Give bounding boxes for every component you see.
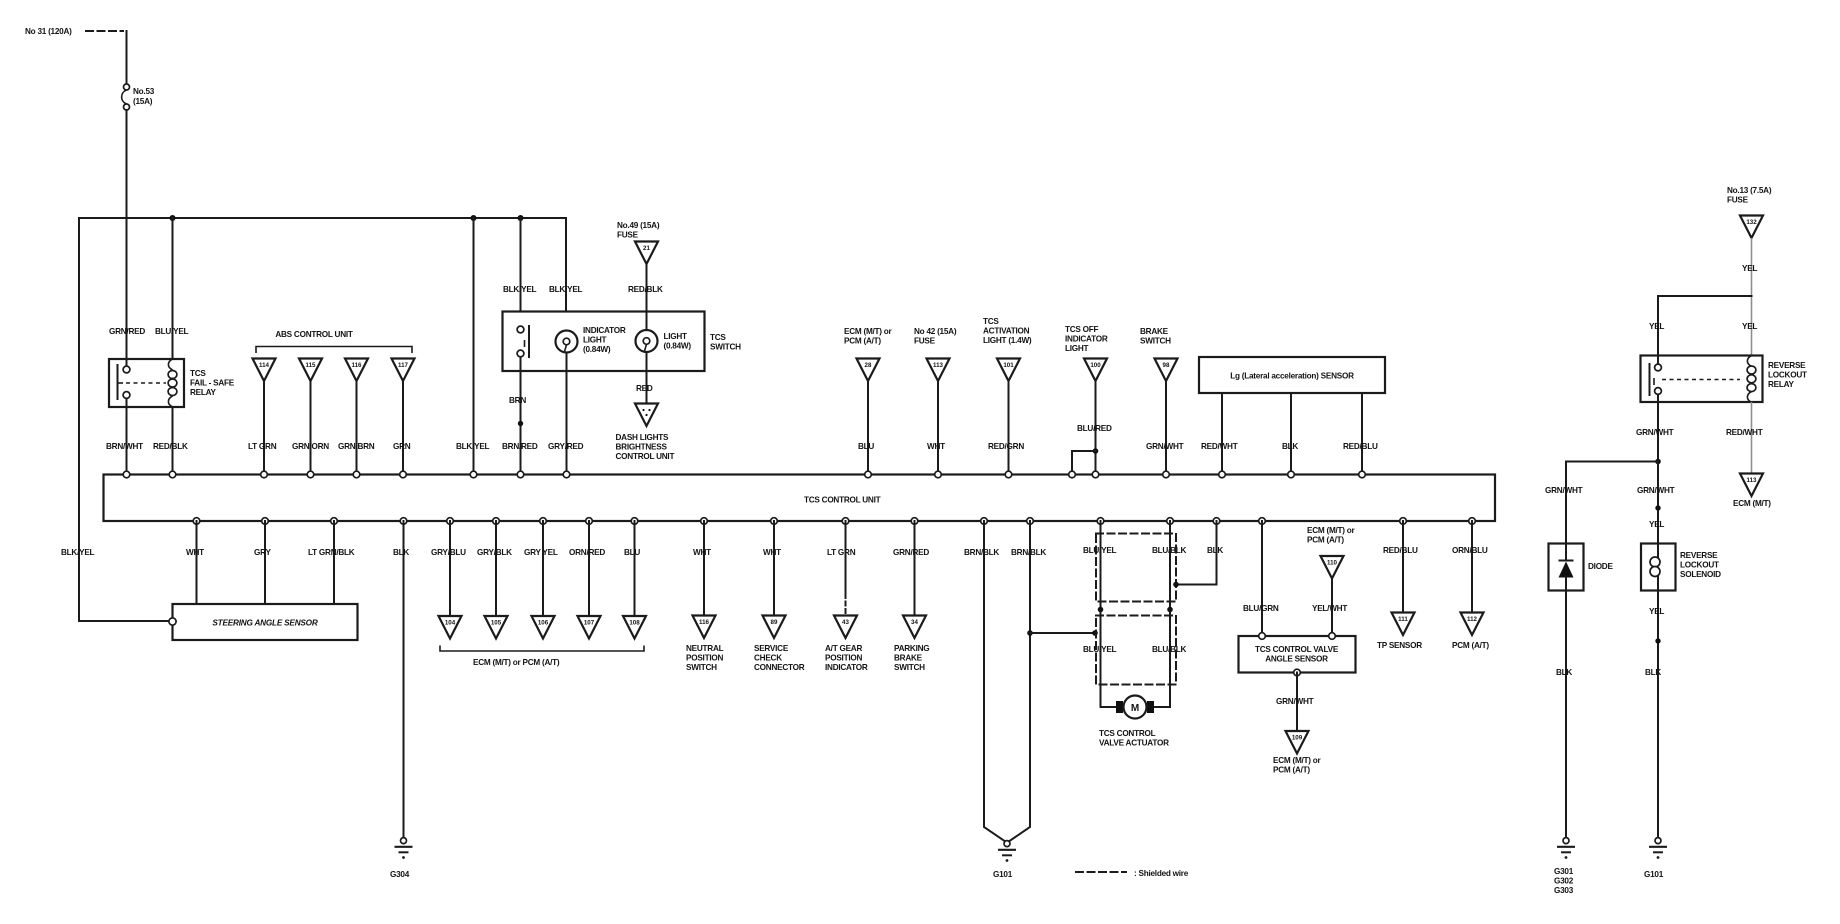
svg-text:GRN/RED: GRN/RED: [893, 548, 929, 557]
svg-text:CHECK: CHECK: [754, 654, 782, 663]
connector dash lights brightness control unit: [616, 404, 675, 462]
svg-text:ECM (M/T): ECM (M/T): [1733, 499, 1771, 508]
wire GRN/WHT branch to diode: [1545, 462, 1658, 544]
wire GRN/WHT angle sensor to ECM: [1276, 673, 1314, 732]
wire shielded lower section: [1096, 616, 1176, 685]
svg-text:BLU/YEL: BLU/YEL: [1083, 546, 1117, 555]
node No.31 (120A) power feed label: [25, 27, 123, 36]
svg-text:TCS CONTROL VALVE: TCS CONTROL VALVE: [1255, 645, 1339, 654]
svg-text:BLK: BLK: [1282, 442, 1298, 451]
svg-text:CONNECTOR: CONNECTOR: [754, 663, 805, 672]
svg-text:RED: RED: [636, 384, 653, 393]
svg-text:GRN/WHT: GRN/WHT: [1637, 486, 1675, 495]
wire GRN/BRN: [338, 381, 375, 475]
svg-text:LIGHT: LIGHT: [664, 332, 688, 341]
wire GRY/BLK: [477, 521, 512, 616]
svg-text:STEERING ANGLE SENSOR: STEERING ANGLE SENSOR: [212, 619, 317, 628]
svg-text:98: 98: [1163, 362, 1170, 369]
wire BLU/GRN to angle sensor: [1243, 521, 1279, 636]
svg-text:BLK/YEL: BLK/YEL: [456, 442, 490, 451]
wire top bus: [79, 217, 566, 219]
svg-text:BLU/BLK: BLU/BLK: [1152, 645, 1187, 654]
switch S1 TCS switch box: [503, 312, 742, 372]
svg-text:RED/WHT: RED/WHT: [1201, 442, 1238, 451]
wire WHT: [927, 381, 945, 475]
svg-text:GRN: GRN: [393, 442, 411, 451]
ground G301 G302 G303: [1554, 838, 1575, 895]
svg-text:PCM (A/T): PCM (A/T): [1452, 641, 1489, 650]
lamp TCS switch light 0.84W: [636, 330, 692, 352]
svg-text:104: 104: [445, 620, 456, 627]
connector 110 ECM: [1307, 526, 1356, 579]
connector 113 ECM M/T: [1733, 474, 1771, 509]
svg-text:RELAY: RELAY: [1768, 380, 1795, 389]
svg-text:RED/BLK: RED/BLK: [628, 285, 663, 294]
svg-text:No.53: No.53: [133, 87, 155, 96]
svg-text:BRN/WHT: BRN/WHT: [106, 442, 143, 451]
svg-text:110: 110: [1327, 560, 1338, 567]
svg-text:TCS CONTROL UNIT: TCS CONTROL UNIT: [804, 496, 881, 505]
svg-text:FAIL - SAFE: FAIL - SAFE: [190, 379, 235, 388]
wire BLK to ground G304: [393, 521, 409, 838]
svg-text:BLU/BLK: BLU/BLK: [1152, 546, 1187, 555]
svg-text:BLU: BLU: [624, 548, 640, 557]
wire BLK diode to ground: [1556, 591, 1572, 839]
lamp indicator light 0.84W: [556, 326, 626, 354]
connector 28 ECM: [844, 327, 893, 381]
wire WHT to service check connector: [763, 521, 781, 616]
wire GRY/RED indicator light to control unit: [548, 353, 584, 475]
svg-text:SWITCH: SWITCH: [710, 343, 741, 352]
svg-text:FUSE: FUSE: [1727, 196, 1749, 205]
node pins bottom edge of TCS control unit: [193, 518, 1475, 525]
connector 115: [299, 359, 322, 382]
svg-text:SWITCH: SWITCH: [686, 663, 717, 672]
svg-text:ECM (M/T) or: ECM (M/T) or: [1273, 756, 1322, 765]
svg-text:GRN/WHT: GRN/WHT: [1146, 442, 1184, 451]
connector 116 neutral position switch: [686, 616, 724, 673]
svg-text:YEL: YEL: [1742, 322, 1757, 331]
wire YEL/WHT to angle sensor: [1312, 579, 1347, 637]
svg-text:GRN/WHT: GRN/WHT: [1545, 486, 1583, 495]
svg-text:BLU/GRN: BLU/GRN: [1243, 604, 1279, 613]
svg-text:PCM (A/T): PCM (A/T): [1307, 536, 1344, 545]
svg-text:WHT: WHT: [763, 548, 781, 557]
node legend shielded wire: [1076, 869, 1189, 878]
svg-text:POSITION: POSITION: [686, 654, 723, 663]
svg-text:TP SENSOR: TP SENSOR: [1377, 641, 1422, 650]
svg-text:No 42 (15A): No 42 (15A): [914, 327, 957, 336]
svg-text:REVERSE: REVERSE: [1680, 551, 1718, 560]
ground G101: [993, 841, 1016, 879]
svg-text:SWITCH: SWITCH: [894, 663, 925, 672]
svg-text:132: 132: [1746, 219, 1757, 226]
svg-text:34: 34: [911, 619, 918, 626]
svg-text:LOCKOUT: LOCKOUT: [1680, 561, 1719, 570]
svg-text:DASH LIGHTS: DASH LIGHTS: [616, 433, 670, 442]
motor M1 TCS control valve actuator: [1099, 696, 1170, 748]
fuse No.53 (15A): [122, 84, 155, 110]
wire GRN/ORN: [292, 381, 329, 475]
connector 100 TCS off indicator light: [1065, 325, 1108, 381]
svg-text:REVERSE: REVERSE: [1768, 361, 1806, 370]
svg-text:WHT: WHT: [927, 442, 945, 451]
solenoid L1 reverse lockout solenoid: [1641, 544, 1721, 591]
wire GRY to steering sensor: [254, 521, 271, 604]
svg-text:116: 116: [699, 619, 710, 626]
svg-text:SWITCH: SWITCH: [1140, 337, 1171, 346]
svg-text:VALVE ACTUATOR: VALVE ACTUATOR: [1099, 739, 1169, 748]
svg-text:115: 115: [306, 362, 317, 369]
svg-text:ORN/BLU: ORN/BLU: [1452, 546, 1488, 555]
wire BLK shield drain: [1173, 521, 1223, 587]
wire light to box top: [646, 312, 648, 331]
wire RED/BLK fuse to switch box: [628, 264, 663, 312]
connector 106: [532, 616, 555, 639]
node ABS control unit label and bracket: [256, 330, 412, 353]
svg-text:109: 109: [1292, 735, 1303, 742]
svg-text:(0.84W): (0.84W): [583, 345, 611, 354]
svg-text:112: 112: [1467, 616, 1478, 623]
svg-text:YEL: YEL: [1649, 520, 1664, 529]
svg-text:105: 105: [491, 620, 502, 627]
svg-text:G303: G303: [1554, 886, 1574, 895]
wire RED/WHT: [1201, 393, 1238, 475]
svg-text:BRN/RED: BRN/RED: [502, 442, 538, 451]
wire BLU/BLK to actuator: [1152, 521, 1187, 707]
svg-text:(0.84W): (0.84W): [664, 342, 692, 351]
wire WHT to steering sensor: [186, 521, 204, 604]
svg-text:106: 106: [538, 620, 549, 627]
svg-text:YEL/WHT: YEL/WHT: [1312, 604, 1347, 613]
svg-text:FUSE: FUSE: [617, 231, 639, 240]
svg-text:BLK: BLK: [1645, 668, 1661, 677]
svg-text:INDICATOR: INDICATOR: [583, 326, 626, 335]
svg-text:LIGHT (1.4W): LIGHT (1.4W): [983, 336, 1032, 345]
svg-text:: Shielded wire: : Shielded wire: [1134, 869, 1189, 878]
svg-text:BLK/YEL: BLK/YEL: [549, 285, 583, 294]
svg-text:POSITION: POSITION: [825, 654, 862, 663]
svg-text:BLK: BLK: [1556, 668, 1572, 677]
wire BRN/BLK left to ground G101: [964, 521, 1006, 842]
wire RED light to dash lights unit: [636, 352, 653, 402]
connector 104: [439, 616, 462, 639]
sensor TCS control valve angle sensor: [1239, 633, 1356, 676]
wire RED/WHT relay to ECM connector: [1726, 402, 1763, 474]
connector 114: [253, 359, 276, 382]
wire YEL branch to relay contact: [1649, 296, 1752, 356]
svg-text:LIGHT: LIGHT: [583, 336, 607, 345]
wire RED/GRN: [988, 381, 1024, 475]
connector 117: [392, 359, 415, 382]
connector 112 PCM: [1452, 613, 1489, 651]
svg-text:G302: G302: [1554, 877, 1574, 886]
connector 116: [345, 359, 368, 382]
svg-text:YEL: YEL: [1742, 264, 1757, 273]
svg-text:28: 28: [865, 362, 872, 369]
svg-text:LT GRN/BLK: LT GRN/BLK: [308, 548, 355, 557]
svg-text:ORN/RED: ORN/RED: [569, 548, 605, 557]
svg-text:GRN/RED: GRN/RED: [109, 327, 145, 336]
wire RED/BLK relay to control unit: [153, 407, 188, 475]
svg-text:107: 107: [584, 620, 595, 627]
relay K1 TCS fail-safe relay: [109, 359, 235, 407]
wire GRN/RED to parking brake switch: [893, 521, 929, 616]
connector 107: [578, 616, 601, 639]
node junction bus/BLK-YEL: [471, 215, 477, 221]
svg-text:RED/GRN: RED/GRN: [988, 442, 1024, 451]
svg-text:PCM (A/T): PCM (A/T): [844, 337, 881, 346]
svg-text:A/T GEAR: A/T GEAR: [825, 644, 862, 653]
connector 108: [623, 616, 646, 639]
sensor steering angle sensor: [169, 604, 358, 640]
wire GRY YEL: [524, 521, 558, 616]
svg-text:ANGLE SENSOR: ANGLE SENSOR: [1265, 655, 1328, 664]
wire BLU/YEL bus to relay coil: [155, 218, 189, 359]
svg-text:113: 113: [933, 362, 944, 369]
wire YEL fuse to relay coil: [1742, 238, 1757, 356]
svg-text:GRN/ORN: GRN/ORN: [292, 442, 329, 451]
svg-text:BLU/YEL: BLU/YEL: [155, 327, 189, 336]
svg-text:LOCKOUT: LOCKOUT: [1768, 371, 1807, 380]
svg-text:BLU/YEL: BLU/YEL: [1083, 645, 1117, 654]
svg-text:GRN/WHT: GRN/WHT: [1636, 428, 1674, 437]
svg-text:G301: G301: [1554, 867, 1574, 876]
svg-text:ECM (M/T) or PCM (A/T): ECM (M/T) or PCM (A/T): [473, 658, 560, 667]
wire LT GRN: [248, 381, 277, 475]
wire BRN/BLK right to ground G101: [1008, 521, 1046, 842]
svg-text:BRN/BLK: BRN/BLK: [1011, 548, 1046, 557]
svg-text:G304: G304: [390, 870, 410, 879]
svg-text:TCS CONTROL: TCS CONTROL: [1099, 729, 1156, 738]
svg-text:WHT: WHT: [186, 548, 204, 557]
connector 109 ECM: [1273, 731, 1322, 775]
connector 43 A/T gear position indicator: [825, 616, 868, 673]
wire BLU/RED with branch: [1072, 381, 1112, 475]
wire RED/BLU to TP sensor: [1383, 521, 1418, 613]
node junction bus/BLK-YEL 2: [518, 215, 524, 221]
wire BLU/YEL to actuator: [1083, 521, 1117, 707]
wire GRY/BLU: [431, 521, 466, 616]
connector 34 parking brake switch: [894, 616, 929, 673]
wire shielded upper section: [1096, 534, 1176, 602]
svg-text:43: 43: [842, 619, 849, 626]
svg-text:BLU/RED: BLU/RED: [1077, 424, 1112, 433]
svg-text:ECM (M/T) or: ECM (M/T) or: [844, 327, 893, 336]
wire BLU: [624, 521, 640, 616]
wire BLK/YEL bus to TCS control unit: [456, 218, 490, 475]
connector 98 brake switch: [1140, 327, 1178, 381]
svg-text:89: 89: [771, 619, 778, 626]
fuse No.13 (7.5A) connector 132: [1727, 186, 1772, 238]
diode D1: [1549, 544, 1614, 591]
svg-text:INDICATOR: INDICATOR: [1065, 335, 1108, 344]
svg-text:LT GRN: LT GRN: [827, 548, 856, 557]
svg-text:WHT: WHT: [693, 548, 711, 557]
node junction BRN/BLK shield tap: [1027, 630, 1098, 636]
wire GRN: [393, 381, 411, 475]
svg-text:111: 111: [1398, 616, 1408, 623]
svg-text:GRN/BRN: GRN/BRN: [338, 442, 375, 451]
svg-text:No 31 (120A): No 31 (120A): [25, 27, 72, 36]
svg-text:GRY/BLK: GRY/BLK: [477, 548, 512, 557]
connector 113 fuse No.42: [914, 327, 957, 381]
wire BLU: [858, 381, 874, 475]
svg-text:PARKING: PARKING: [894, 644, 929, 653]
wire BLK/YEL left drop to steering angle sensor: [61, 218, 169, 621]
svg-text:ACTIVATION: ACTIVATION: [983, 327, 1030, 336]
svg-text:TCS OFF: TCS OFF: [1065, 325, 1099, 334]
wire feed down from No.31: [126, 31, 128, 84]
svg-text:BLU: BLU: [858, 442, 874, 451]
svg-text:101: 101: [1003, 362, 1014, 369]
wire YEL-BLK solenoid to ground: [1645, 591, 1664, 839]
svg-text:BLK: BLK: [393, 548, 409, 557]
wire ORN/RED: [569, 521, 605, 616]
wire BRN/WHT relay to control unit: [106, 407, 143, 475]
svg-text:BLK/YEL: BLK/YEL: [61, 548, 95, 557]
svg-text:TCS: TCS: [190, 369, 206, 378]
fuse No.49 (15A) connector 21: [617, 221, 660, 264]
svg-text:NEUTRAL: NEUTRAL: [686, 644, 724, 653]
wire BRN / BRN RED switch to control unit: [502, 357, 538, 475]
wire BLK/YEL bus end drop to indicator light: [549, 218, 583, 331]
wire GRN/RED fuse to relay: [109, 110, 145, 359]
svg-text:TCS: TCS: [983, 317, 999, 326]
wire RED/BLU: [1343, 393, 1378, 475]
svg-text:GRY/BLU: GRY/BLU: [431, 548, 466, 557]
wire GRN/WHT: [1146, 381, 1184, 475]
svg-text:SERVICE: SERVICE: [754, 644, 789, 653]
svg-text:BRN/BLK: BRN/BLK: [964, 548, 999, 557]
svg-text:GRY: GRY: [254, 548, 271, 557]
node ECM bracket under 104-108: [440, 646, 644, 668]
relay K2 reverse lockout relay: [1641, 356, 1807, 403]
svg-text:DIODE: DIODE: [1588, 562, 1613, 571]
svg-text:BRAKE: BRAKE: [1140, 327, 1169, 336]
svg-text:SOLENOID: SOLENOID: [1680, 570, 1721, 579]
node shield splice dots: [1098, 607, 1173, 613]
svg-text:YEL: YEL: [1649, 607, 1664, 616]
svg-text:116: 116: [352, 362, 363, 369]
svg-text:Lg (Lateral acceleration) SENS: Lg (Lateral acceleration) SENSOR: [1230, 372, 1354, 381]
svg-text:RELAY: RELAY: [190, 388, 217, 397]
sensor Lg lateral acceleration sensor: [1199, 357, 1385, 393]
svg-text:BRIGHTNESS: BRIGHTNESS: [616, 443, 668, 452]
node junction bus/BLU-YEL: [170, 215, 176, 221]
svg-text:BLK/YEL: BLK/YEL: [503, 285, 537, 294]
wire BLK: [1282, 393, 1298, 475]
svg-text:108: 108: [629, 620, 640, 627]
ground G304: [390, 838, 413, 879]
svg-text:RED/BLK: RED/BLK: [153, 442, 188, 451]
op-amp U1 TCS control unit box: [104, 475, 1496, 522]
svg-text:RED/BLU: RED/BLU: [1383, 546, 1418, 555]
svg-text:YEL: YEL: [1649, 322, 1664, 331]
wire GRN/WHT relay to junction: [1636, 402, 1674, 462]
wire LT GRN/BLK to steering sensor: [308, 521, 355, 604]
svg-text:LIGHT: LIGHT: [1065, 344, 1089, 353]
svg-text:INDICATOR: INDICATOR: [825, 663, 868, 672]
svg-text:G101: G101: [1644, 870, 1664, 879]
svg-text:No.49 (15A): No.49 (15A): [617, 221, 660, 230]
svg-text:LT GRN: LT GRN: [248, 442, 277, 451]
wire GRN/WHT-YEL to solenoid: [1637, 462, 1675, 544]
svg-text:113: 113: [1747, 477, 1758, 484]
svg-text:BRAKE: BRAKE: [894, 654, 923, 663]
wire LT GRN to A/T gear position indicator: [827, 521, 856, 616]
svg-text:G101: G101: [993, 870, 1013, 879]
connector 89 service check connector: [754, 616, 805, 673]
svg-text:114: 114: [259, 362, 270, 369]
svg-text:100: 100: [1090, 362, 1101, 369]
svg-text:BLK: BLK: [1207, 546, 1223, 555]
svg-text:RED/BLU: RED/BLU: [1343, 442, 1378, 451]
connector 111 TP sensor: [1377, 613, 1422, 651]
node junction GRN/WHT: [1655, 459, 1661, 465]
node pins top edge of TCS control unit: [123, 471, 1365, 478]
svg-text:RED/WHT: RED/WHT: [1726, 428, 1763, 437]
svg-text:No.13 (7.5A): No.13 (7.5A): [1727, 186, 1772, 195]
wire WHT to neutral position switch: [693, 521, 711, 616]
wire ORN/BLU to PCM: [1452, 521, 1488, 613]
svg-text:PCM (A/T): PCM (A/T): [1273, 766, 1310, 775]
svg-text:ABS CONTROL UNIT: ABS CONTROL UNIT: [275, 330, 353, 339]
svg-text:BRN: BRN: [509, 396, 526, 405]
svg-text:GRY YEL: GRY YEL: [524, 548, 558, 557]
svg-text:M: M: [1131, 703, 1139, 714]
connector 101 TCS activation light: [983, 317, 1032, 381]
svg-text:GRN/WHT: GRN/WHT: [1276, 697, 1314, 706]
wire BLK/YEL bus to TCS switch: [503, 218, 537, 327]
svg-text:FUSE: FUSE: [914, 337, 936, 346]
svg-text:117: 117: [398, 362, 409, 369]
connector 105: [485, 616, 508, 639]
svg-text:21: 21: [643, 245, 650, 252]
svg-text:GRY/RED: GRY/RED: [548, 442, 584, 451]
svg-text:CONTROL UNIT: CONTROL UNIT: [616, 452, 675, 461]
svg-text:ECM (M/T) or: ECM (M/T) or: [1307, 526, 1356, 535]
ground G101 right: [1644, 838, 1667, 879]
svg-text:TCS: TCS: [710, 333, 726, 342]
svg-text:(15A): (15A): [133, 97, 153, 106]
